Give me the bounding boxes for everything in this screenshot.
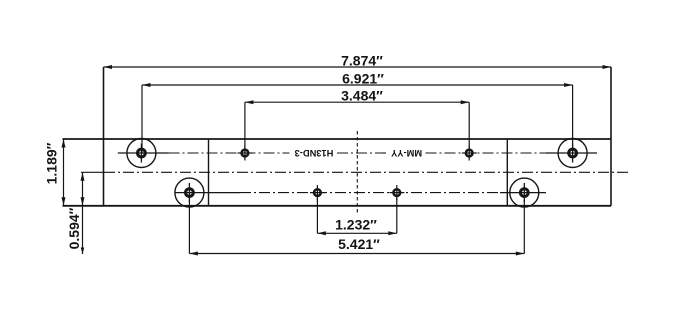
arrow 3.484 left [245,100,254,104]
svg-text:MM-YY: MM-YY [390,148,422,158]
arrow 1.189 bottom [62,197,66,206]
arrow 7.874 left [104,65,113,69]
arrow 0.594 at bar bottom [81,197,85,206]
hole S2 small top-right [462,146,477,161]
arrow 6.921 right [564,83,573,87]
bar top edge [63,138,612,140]
arrow 5.421 left [189,252,198,256]
bar left edge / 7.874 left extension [103,67,105,206]
dimension 1.232 right extension [396,198,398,233]
bottom row centerline [175,192,546,194]
arrow 3.484 right [461,100,470,104]
dimension 1.232 line [317,232,396,234]
svg-text:6.921″: 6.921″ [342,71,384,87]
dimension 7.874 line [104,66,612,68]
arrowheads [62,65,612,256]
arrow 1.189 top [62,139,66,148]
dimension 0.594 extension to centerline [81,171,104,173]
svg-text:1.189″: 1.189″ [44,142,60,184]
svg-text:7.874″: 7.874″ [341,53,383,69]
dimension 5.421 right extension [523,200,525,254]
hole S1 small top-left [238,146,253,161]
mid horizontal centerline [104,171,628,173]
hole B2 big bottom-right [510,178,539,207]
dimension 1.189 line [63,139,65,206]
dimension 3.484 right extension [468,102,470,148]
arrow 1.232 right [388,231,397,235]
arrow 7.874 right [603,65,612,69]
svg-text:1.232″: 1.232″ [335,217,377,233]
inner vertical line left block [208,139,210,206]
dimension 1.232 left extension [316,198,318,233]
dimension 5.421 line [189,253,524,255]
svg-text:3.484″: 3.484″ [341,88,383,104]
hole S3 small bottom-left [310,185,325,200]
vertical centerline [356,131,358,215]
dimension 6.921 line [142,84,573,86]
dimension 3.484 line [245,101,469,103]
hole S4 small bottom-right [389,185,404,200]
arrow 1.232 left [317,231,326,235]
arrow 0.594 tail end [81,248,85,255]
svg-text:0.594″: 0.594″ [66,207,82,249]
hole A2 big top-right [558,139,587,168]
arrow 0.594 top [81,172,85,181]
bar bottom edge [63,205,612,207]
top row centerline [118,152,597,154]
dimension 0.594 line [82,172,84,254]
inner vertical line right block [506,139,508,206]
dimension 6.921 left extension [141,85,143,153]
hole B1 big bottom-left [175,178,204,207]
svg-text:5.421″: 5.421″ [338,236,380,252]
svg-text:H13ND-3: H13ND-3 [295,148,334,158]
bar right edge / 7.874 right extension [610,67,612,206]
dimension 5.421 left extension [188,200,190,254]
dimension 6.921 right extension [572,85,574,153]
arrow 5.421 right [516,252,525,256]
arrow 6.921 left [142,83,151,87]
dimension 3.484 left extension [244,102,246,148]
hole A1 big top-left [127,139,156,168]
